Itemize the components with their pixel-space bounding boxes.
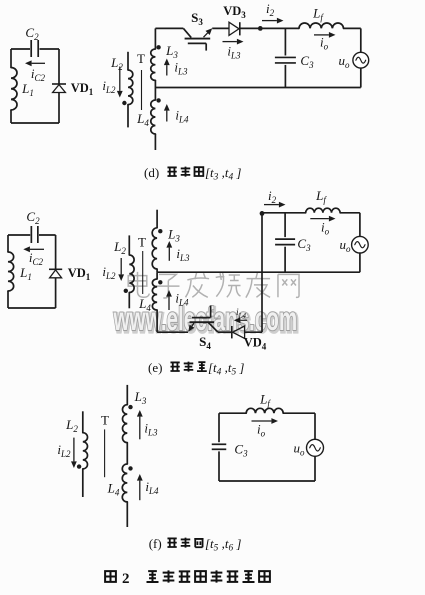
- svg-text:(e): (e): [148, 360, 162, 375]
- svg-text:T: T: [137, 51, 145, 66]
- svg-text:[t4 ,t5 ]: [t4 ,t5 ]: [208, 360, 244, 378]
- svg-text:(f): (f): [149, 536, 162, 551]
- svg-text:(d): (d): [144, 165, 159, 180]
- svg-text:2: 2: [122, 571, 130, 587]
- svg-text:T: T: [101, 413, 109, 428]
- svg-text:T: T: [138, 235, 146, 250]
- svg-text:[t3 ,t4 ]: [t3 ,t4 ]: [205, 165, 241, 183]
- svg-text:[t5 ,t6 ]: [t5 ,t6 ]: [205, 536, 241, 554]
